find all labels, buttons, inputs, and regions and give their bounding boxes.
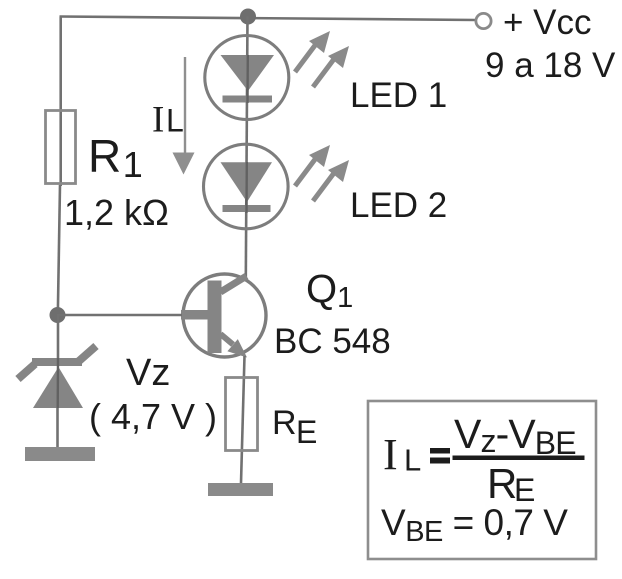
LED D1 light arrow a [295,44,316,72]
svg-text:BC 548: BC 548 [274,322,391,361]
formula box frame [368,401,596,559]
svg-text:LED 2: LED 2 [350,186,447,225]
LED D1 circle [205,36,289,120]
wire left rail lower [58,185,60,316]
svg-text:Vz: Vz [126,352,170,394]
svg-text:Q1: Q1 [306,268,353,315]
zener diode cathode bar [32,358,82,366]
wire emitter to RE [241,356,245,483]
svg-text:I: I [383,430,398,479]
resistor R1 [46,111,76,184]
svg-text:+ Vcc: + Vcc [503,3,592,42]
zener diode right tail [79,346,96,361]
transistor Q1 emitter lead [221,334,234,345]
ground RE [208,483,273,496]
zener diode triangle [33,367,83,408]
transistor Q1 circle [183,274,266,357]
ground zener [25,447,95,461]
svg-text:I: I [152,100,164,141]
LED D1 triangle [221,55,275,91]
wire left rail upper [59,17,62,187]
LED D1 light arrow b [313,59,334,87]
svg-text:R: R [272,404,297,442]
svg-text:E: E [296,414,317,450]
transistor Q1 base bar [208,281,222,354]
transistor Q1 collector lead [221,276,247,292]
transistor Q1 base lead [181,310,208,320]
wire through zener [57,358,60,408]
transistor Q1 emitter arrow [227,339,247,357]
LED D2 cathode bar [223,205,271,212]
formula fraction bar [453,456,585,461]
LED D2 light arrow b [313,173,334,201]
LED D2 circle [204,144,289,229]
wire top horizontal rail [60,17,477,21]
LED D1 cathode bar [223,96,273,103]
svg-text:R1: R1 [88,130,143,185]
wire zener top [57,315,60,360]
LED D2 light arrow a [295,158,316,186]
node top junction dot [240,9,256,25]
wire through LED1 [246,55,249,103]
zener diode left tail [18,364,35,379]
node base junction dot [50,307,66,323]
wire base from node to Q1 [57,314,182,317]
arrow IL direction [184,57,186,153]
svg-text:VBE = 0,7 V: VBE = 0,7 V [381,502,568,548]
wire LED chain vertical [246,17,248,279]
svg-text:LED 1: LED 1 [350,76,447,115]
svg-text:L: L [404,443,421,478]
svg-text:9 a 18 V: 9 a 18 V [485,46,616,85]
svg-text:L: L [166,103,184,139]
terminal +Vcc open circle [476,13,491,28]
resistor RE [226,378,258,451]
svg-text:R: R [487,460,517,507]
LED D2 triangle [221,162,273,202]
wire zener to ground [56,408,59,448]
svg-text:( 4,7 V ): ( 4,7 V ) [89,396,217,437]
svg-text:Vz-VBE: Vz-VBE [454,411,576,461]
wire through LED2 [245,162,248,213]
svg-text:1,2 kΩ: 1,2 kΩ [64,192,169,233]
